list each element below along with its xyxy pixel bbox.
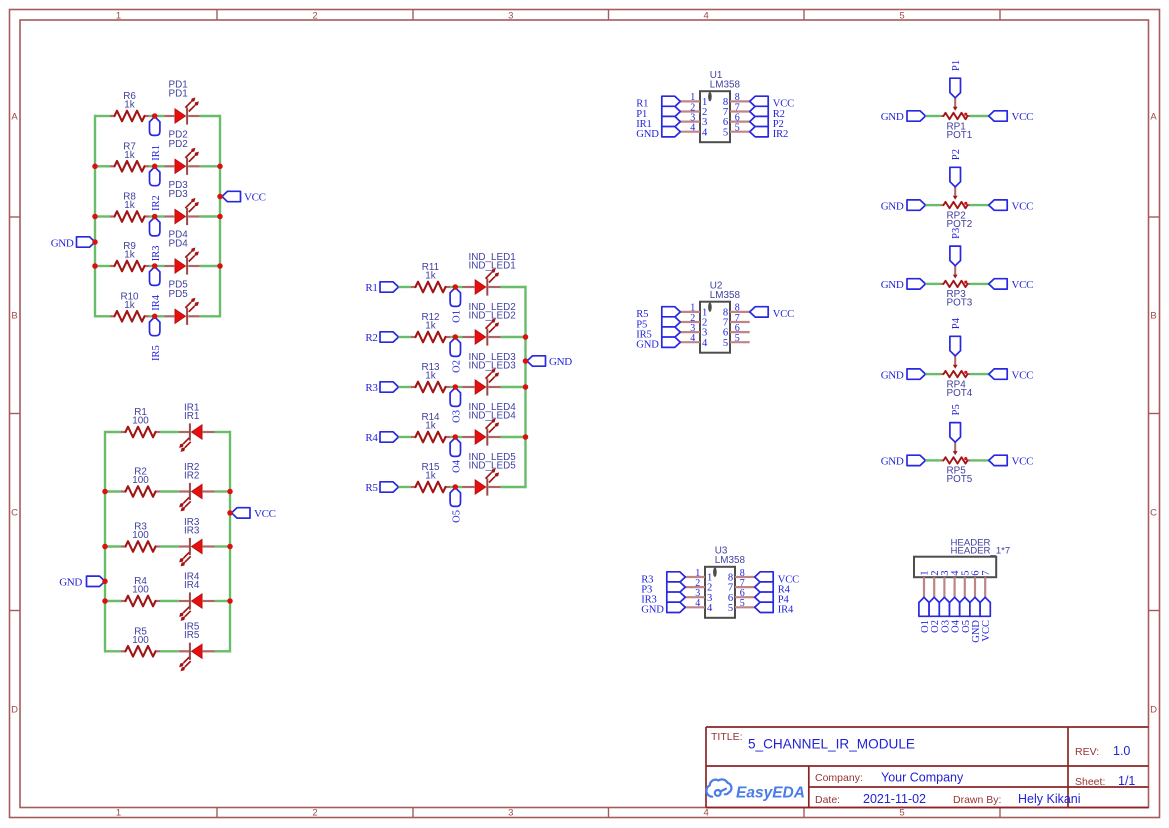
- svg-text:GND: GND: [881, 279, 904, 291]
- U3 pin 5: [728, 598, 755, 614]
- photodiode PD3: [165, 180, 200, 225]
- wire row IR3 middle segment: [160, 545, 179, 547]
- wire row IND3 left segment: [399, 386, 412, 388]
- power port VCC top-left: [222, 191, 266, 203]
- resistor R6: [110, 91, 149, 121]
- LED IR1: [179, 402, 215, 451]
- svg-text:5: 5: [899, 808, 904, 819]
- wire row IND3 right segment: [501, 386, 526, 388]
- svg-text:IND_LED5: IND_LED5: [469, 461, 517, 472]
- wire right bus middle block: [524, 287, 526, 487]
- svg-text:IND_LED3: IND_LED3: [469, 361, 517, 372]
- resistor R9: [110, 241, 149, 271]
- node O5 junction: [453, 484, 459, 490]
- wire row IND2 left segment: [399, 336, 412, 338]
- wire row PD4 right segment: [200, 265, 220, 267]
- svg-text:IR3: IR3: [184, 525, 200, 536]
- svg-text:LM358: LM358: [710, 79, 741, 90]
- resistor R7: [110, 141, 149, 171]
- net label IR4: [150, 267, 162, 311]
- net label O1: [450, 288, 462, 323]
- LED IND_LED4: [463, 402, 517, 446]
- svg-text:O5: O5: [452, 510, 463, 523]
- LED IND_LED1: [463, 252, 517, 296]
- node IR5 junction: [152, 314, 158, 320]
- resistor R4: [121, 576, 160, 606]
- svg-text:TITLE:: TITLE:: [711, 731, 743, 743]
- svg-text:GND: GND: [51, 238, 74, 250]
- header pin 7: [981, 571, 992, 598]
- port O3 at header pin 3: [939, 597, 951, 633]
- svg-text:4: 4: [702, 338, 708, 349]
- svg-text:1: 1: [116, 808, 121, 819]
- ground port GND at RP3: [881, 279, 926, 291]
- ground port GND top-left: [51, 237, 95, 250]
- port P3 at U3 pin 2: [641, 582, 685, 596]
- net label O5: [450, 488, 462, 523]
- wire row IND3 middle segment: [450, 386, 463, 388]
- svg-text:D: D: [11, 704, 18, 715]
- svg-text:PD1: PD1: [169, 89, 189, 100]
- svg-text:4: 4: [690, 333, 695, 344]
- port VCC at header pin 7: [980, 597, 992, 641]
- wire row IR3 left segment: [105, 545, 122, 547]
- svg-text:VCC: VCC: [773, 309, 794, 320]
- svg-text:7: 7: [981, 571, 992, 576]
- wire RP5 right: [970, 459, 989, 461]
- svg-text:GND: GND: [59, 577, 82, 589]
- svg-text:IR2: IR2: [184, 470, 199, 481]
- svg-text:Date:: Date:: [815, 794, 840, 806]
- svg-text:1k: 1k: [124, 150, 134, 161]
- svg-text:IR4: IR4: [151, 294, 162, 311]
- wire RP4 left: [926, 373, 942, 375]
- U1 pin 2: [680, 102, 707, 118]
- svg-text:IND_LED4: IND_LED4: [469, 411, 517, 422]
- port P4 at RP4 wiper: [950, 317, 962, 356]
- svg-text:O2: O2: [452, 360, 463, 373]
- wire row PD5 left segment: [95, 315, 111, 317]
- port R4 at U3 pin 7: [755, 582, 791, 596]
- U3 pin 2: [685, 578, 712, 594]
- junction dots bottom-left buses: [102, 489, 233, 604]
- U2 pin 3: [680, 323, 707, 339]
- resistor R11: [411, 262, 450, 292]
- op-amp U2 LM358 body: [700, 281, 741, 353]
- port P1 at RP1 wiper: [950, 60, 962, 98]
- wire row PD1 right segment: [200, 115, 220, 117]
- svg-text:Company:: Company:: [815, 772, 863, 784]
- svg-text:GND: GND: [549, 356, 572, 368]
- wire row PD5 right segment: [200, 315, 220, 317]
- U2 pin 1: [680, 303, 707, 319]
- svg-text:POT1: POT1: [947, 130, 973, 141]
- svg-text:IR2: IR2: [151, 195, 162, 211]
- EasyEDA logo: [706, 779, 731, 796]
- wire RP3 left: [926, 283, 942, 285]
- port P1 at U1 pin 2: [636, 106, 680, 120]
- wire row IND5 middle segment: [450, 486, 463, 488]
- U2 pin 4: [680, 333, 708, 349]
- U1 pin 3: [680, 112, 707, 128]
- svg-text:GND: GND: [881, 456, 904, 468]
- wire row IR2 middle segment: [160, 490, 179, 492]
- svg-text:R4: R4: [365, 432, 378, 444]
- wire row IR5 right segment: [215, 650, 231, 652]
- U1 pin 6: [723, 112, 750, 128]
- svg-text:5_CHANNEL_IR_MODULE: 5_CHANNEL_IR_MODULE: [748, 737, 915, 752]
- node VCC junction top-left: [217, 194, 223, 200]
- svg-text:LM358: LM358: [715, 555, 746, 566]
- node O2 junction: [453, 334, 459, 340]
- svg-text:IR1: IR1: [151, 145, 162, 161]
- header pin 3: [940, 571, 951, 598]
- svg-text:3: 3: [508, 808, 513, 819]
- wire RP5 left: [926, 459, 942, 461]
- net label IR1: [150, 117, 162, 161]
- wire row IR1 right segment: [215, 431, 231, 433]
- wire row PD1 middle segment: [149, 115, 165, 117]
- ruler column numbers bottom: [116, 808, 905, 819]
- net label IR5: [150, 317, 162, 361]
- ground port GND at RP4: [881, 369, 926, 381]
- wire left bus top-left block: [94, 116, 96, 316]
- potentiometer RP2: [941, 187, 972, 230]
- svg-text:VCC: VCC: [244, 192, 266, 204]
- svg-text:VCC: VCC: [981, 620, 992, 642]
- svg-text:VCC: VCC: [1012, 279, 1034, 291]
- node IR3 junction: [152, 214, 158, 220]
- svg-text:4: 4: [690, 123, 695, 134]
- svg-text:R5: R5: [365, 482, 378, 494]
- op-amp U1 LM358 body: [700, 70, 741, 142]
- svg-text:P4: P4: [951, 317, 962, 329]
- svg-text:VCC: VCC: [1012, 111, 1034, 123]
- svg-text:IND_LED2: IND_LED2: [469, 311, 516, 322]
- wire row IR1 middle segment: [160, 431, 179, 433]
- resistor R12: [411, 312, 450, 342]
- U3 pin 8: [728, 568, 755, 584]
- svg-text:VCC: VCC: [1012, 200, 1034, 212]
- port VCC at U2 pin 8: [750, 307, 794, 321]
- power port VCC at RP4: [989, 369, 1033, 381]
- svg-text:4: 4: [704, 10, 709, 21]
- wire right bus bottom-left block: [229, 432, 231, 651]
- ruler column ticks top: [217, 10, 1000, 21]
- svg-text:5: 5: [899, 10, 904, 21]
- port GND at U2 pin 4: [636, 337, 680, 351]
- potentiometer RP3: [941, 266, 973, 309]
- net label O2: [450, 338, 462, 373]
- wire row PD3 left segment: [95, 215, 111, 217]
- node O3 junction: [453, 384, 459, 390]
- svg-text:REV:: REV:: [1075, 746, 1099, 758]
- resistor R10: [110, 291, 149, 321]
- wire RP1 right: [970, 115, 989, 117]
- svg-text:100: 100: [132, 416, 149, 427]
- U3 pin 1: [685, 568, 712, 584]
- wire row PD3 right segment: [200, 215, 220, 217]
- wire RP3 right: [970, 283, 989, 285]
- wire row IND1 middle segment: [450, 286, 463, 288]
- svg-text:C: C: [11, 507, 18, 518]
- wire row IR4 right segment: [215, 600, 231, 602]
- port P5 at RP5 wiper: [950, 404, 962, 442]
- node VCC junction bottom-left: [227, 510, 233, 516]
- svg-text:IR3: IR3: [151, 246, 162, 262]
- resistor R2: [121, 467, 160, 497]
- port IR1 at U1 pin 3: [636, 116, 680, 129]
- svg-text:A: A: [11, 111, 18, 122]
- port R5 at U2 pin 1: [636, 307, 680, 321]
- ground port GND middle block: [527, 356, 572, 368]
- svg-text:1k: 1k: [425, 421, 435, 432]
- svg-text:1k: 1k: [425, 371, 435, 382]
- port R3 middle block: [365, 382, 398, 394]
- U3 pin 4: [685, 598, 713, 614]
- port O4 at header pin 4: [950, 597, 962, 633]
- port R1 middle block: [365, 282, 398, 294]
- svg-text:C: C: [1150, 507, 1157, 518]
- svg-text:1k: 1k: [124, 250, 134, 261]
- wire row PD5 middle segment: [149, 315, 165, 317]
- wire row PD4 left segment: [95, 265, 111, 267]
- header pin 2: [930, 571, 941, 598]
- wire row IND5 left segment: [399, 486, 412, 488]
- U2 pin 6: [723, 323, 750, 339]
- U2 pin 8: [723, 303, 750, 319]
- wire RP1 left: [926, 115, 942, 117]
- photodiode PD4: [165, 229, 200, 274]
- port IR4 at U3 pin 5: [755, 602, 794, 616]
- resistor R14: [411, 412, 450, 442]
- svg-text:D: D: [1150, 704, 1157, 715]
- svg-text:R3: R3: [365, 382, 378, 394]
- svg-text:IR2: IR2: [773, 129, 788, 140]
- svg-text:GND: GND: [881, 200, 904, 212]
- node GND junction bottom-left: [102, 579, 108, 585]
- ground port GND at RP1: [881, 111, 926, 123]
- port R2 middle block: [365, 332, 398, 344]
- svg-text:B: B: [1150, 311, 1156, 322]
- svg-text:1: 1: [116, 10, 121, 21]
- port P2 at U1 pin 6: [750, 116, 784, 129]
- svg-text:2: 2: [312, 808, 317, 819]
- wire row IR3 right segment: [215, 545, 231, 547]
- svg-text:5: 5: [728, 603, 733, 614]
- wire row PD4 middle segment: [149, 265, 165, 267]
- U1 pin 7: [723, 102, 750, 118]
- header pin 1: [920, 571, 931, 598]
- wire row PD1 left segment: [95, 115, 111, 117]
- potentiometer RP1: [941, 98, 973, 141]
- svg-text:R1: R1: [365, 282, 377, 294]
- U2 pin 5: [723, 333, 750, 349]
- svg-text:VCC: VCC: [1012, 369, 1034, 381]
- port P2 at RP2 wiper: [950, 149, 962, 187]
- port VCC at U1 pin 8: [750, 96, 794, 109]
- port R1 at U1 pin 1: [636, 96, 680, 109]
- power port VCC at RP1: [989, 111, 1033, 123]
- svg-text:4: 4: [695, 598, 700, 609]
- U3 pin 6: [728, 588, 755, 604]
- wire RP2 right: [970, 204, 989, 206]
- wire row IND4 left segment: [399, 436, 412, 438]
- ground port GND at RP2: [881, 200, 926, 212]
- U1 pin 4: [680, 123, 708, 139]
- U2 pin 2: [680, 313, 707, 329]
- svg-text:Drawn By:: Drawn By:: [953, 794, 1001, 806]
- svg-text:1k: 1k: [124, 300, 134, 311]
- wire row IR5 left segment: [105, 650, 122, 652]
- svg-text:GND: GND: [636, 129, 659, 140]
- header pin 4: [950, 570, 961, 598]
- svg-text:1k: 1k: [124, 100, 134, 111]
- photodiode PD2: [165, 130, 200, 175]
- node IR4 junction: [152, 263, 158, 269]
- node O4 junction: [453, 434, 459, 440]
- svg-text:P3: P3: [951, 228, 962, 239]
- LED IND_LED5: [463, 452, 517, 496]
- svg-text:2: 2: [312, 10, 317, 21]
- svg-text:A: A: [1150, 111, 1157, 122]
- svg-text:PD4: PD4: [169, 239, 189, 250]
- svg-text:1.0: 1.0: [1113, 744, 1130, 758]
- svg-text:VCC: VCC: [254, 508, 276, 520]
- LED IND_LED2: [463, 302, 516, 346]
- svg-text:1k: 1k: [124, 200, 134, 211]
- wire row IR1 left segment: [105, 431, 122, 433]
- op-amp U3 LM358 body: [705, 546, 746, 618]
- port IR5 at U2 pin 3: [636, 327, 680, 341]
- U1 pin 1: [680, 92, 707, 108]
- LED IR4: [179, 571, 215, 620]
- port O5 at header pin 5: [960, 597, 972, 633]
- wire right bus top-left block: [219, 116, 221, 316]
- power port VCC at RP5: [989, 455, 1033, 467]
- port P3 at RP3 wiper: [950, 228, 962, 266]
- port P4 at U3 pin 6: [755, 592, 790, 606]
- power port VCC at RP2: [989, 200, 1033, 212]
- power port VCC at RP3: [989, 279, 1033, 291]
- U3 pin 3: [685, 588, 712, 604]
- svg-text:PD3: PD3: [169, 189, 189, 200]
- svg-text:P2: P2: [951, 149, 962, 160]
- port GND at header pin 6: [970, 597, 982, 642]
- svg-text:EasyEDA: EasyEDA: [736, 785, 805, 802]
- wire row PD3 middle segment: [149, 215, 165, 217]
- wire row IR2 left segment: [105, 490, 122, 492]
- resistor R3: [121, 522, 160, 552]
- port GND at U1 pin 4: [636, 127, 680, 141]
- resistor R8: [110, 192, 149, 222]
- wire row IND5 right segment: [501, 486, 526, 488]
- net label IR3: [150, 217, 162, 261]
- svg-text:100: 100: [132, 585, 149, 596]
- U1 pin 8: [723, 92, 750, 108]
- ruler row letters right: [1150, 111, 1157, 715]
- svg-text:Hely Kikani: Hely Kikani: [1018, 792, 1081, 806]
- port R5 middle block: [365, 482, 398, 494]
- svg-text:3: 3: [508, 10, 513, 21]
- resistor R5: [121, 626, 160, 656]
- wire row IND4 middle segment: [450, 436, 463, 438]
- svg-text:HEADER_1*7: HEADER_1*7: [951, 545, 1011, 556]
- potentiometer RP4: [941, 356, 973, 399]
- node GND junction middle block: [523, 358, 529, 364]
- svg-text:100: 100: [132, 475, 149, 486]
- svg-text:4: 4: [704, 808, 709, 819]
- resistor R13: [411, 362, 450, 392]
- port P5 at U2 pin 2: [636, 317, 680, 331]
- svg-text:LM358: LM358: [710, 290, 741, 301]
- svg-text:IR1: IR1: [184, 411, 200, 422]
- svg-text:1k: 1k: [425, 471, 435, 482]
- photodiode PD1: [165, 79, 200, 124]
- svg-text:O3: O3: [452, 410, 463, 423]
- resistor R1: [121, 407, 160, 437]
- U2 pin 7: [723, 313, 750, 329]
- svg-text:Sheet:: Sheet:: [1075, 776, 1105, 788]
- junction dots middle bus: [523, 334, 529, 440]
- LED IR3: [179, 517, 215, 566]
- svg-text:PD2: PD2: [169, 139, 188, 150]
- svg-text:2021-11-02: 2021-11-02: [863, 792, 926, 806]
- ruler row letters left: [11, 111, 18, 715]
- svg-text:1/1: 1/1: [1118, 774, 1135, 788]
- svg-text:P1: P1: [951, 60, 962, 71]
- port R3 at U3 pin 1: [641, 572, 685, 586]
- net label IR2: [150, 167, 162, 211]
- wire row PD2 middle segment: [149, 165, 165, 167]
- svg-text:IR4: IR4: [778, 605, 794, 616]
- wire row IR2 right segment: [215, 490, 231, 492]
- svg-text:100: 100: [132, 530, 149, 541]
- svg-text:B: B: [11, 311, 17, 322]
- wire left bus bottom-left block: [104, 432, 106, 651]
- svg-text:1k: 1k: [425, 321, 435, 332]
- svg-text:POT4: POT4: [947, 388, 973, 399]
- svg-text:5: 5: [740, 598, 745, 609]
- wire RP2 left: [926, 204, 942, 206]
- svg-text:POT3: POT3: [947, 298, 973, 309]
- svg-text:4: 4: [702, 127, 708, 138]
- port O2 at header pin 2: [929, 597, 941, 633]
- wire row PD2 left segment: [95, 165, 111, 167]
- svg-text:IR5: IR5: [151, 345, 162, 361]
- potentiometer RP5: [941, 442, 973, 485]
- wire row IR4 middle segment: [160, 600, 179, 602]
- svg-text:5: 5: [723, 338, 728, 349]
- node IR2 junction: [152, 164, 158, 170]
- wire row IR5 middle segment: [160, 650, 179, 652]
- port O1 at header pin 1: [919, 597, 931, 633]
- LED IR5: [179, 622, 215, 671]
- net label O4: [450, 438, 462, 473]
- power port VCC bottom-left: [232, 508, 276, 520]
- U1 pin 5: [723, 123, 750, 139]
- photodiode PD5: [165, 280, 200, 325]
- wire RP4 right: [970, 373, 989, 375]
- wire row IND2 middle segment: [450, 336, 463, 338]
- svg-text:GND: GND: [881, 111, 904, 123]
- wire row IND4 right segment: [501, 436, 526, 438]
- port VCC at U3 pin 8: [755, 572, 799, 586]
- svg-text:IR4: IR4: [184, 580, 200, 591]
- header pin 5: [960, 571, 971, 598]
- node IR1 junction: [152, 113, 158, 119]
- ruler column ticks bottom: [217, 808, 1000, 819]
